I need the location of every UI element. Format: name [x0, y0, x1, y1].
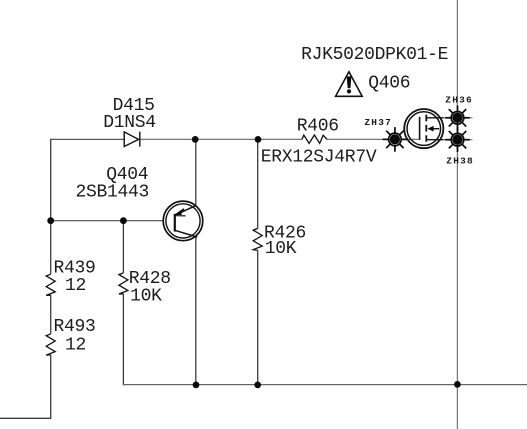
svg-text:ERX12SJ4R7V: ERX12SJ4R7V: [261, 147, 377, 167]
wire bottom-left exit: [0, 417, 51, 419]
svg-text:R406: R406: [297, 117, 339, 137]
svg-text:D1NS4: D1NS4: [103, 113, 156, 133]
node junction G (bottom/page line): [454, 381, 461, 388]
diode D415: [124, 132, 140, 147]
svg-text:Q406: Q406: [368, 74, 410, 94]
node junction C (top/emitter): [192, 136, 199, 143]
svg-text:ZH36: ZH36: [445, 95, 473, 106]
svg-text:2SB1443: 2SB1443: [76, 182, 150, 202]
wire left vertical between R439 and R493: [50, 295, 52, 334]
node junction D (top/R426): [255, 136, 262, 143]
wire source stub: [443, 139, 473, 141]
svg-text:R493: R493: [54, 317, 96, 337]
body arrowhead: [427, 126, 433, 132]
emitter arrowhead Q404: [175, 209, 186, 216]
wire left vertical: [50, 139, 52, 274]
gate bar: [419, 117, 421, 140]
node junction A (left/base): [47, 217, 54, 224]
test point ZH36: [445, 106, 470, 131]
svg-text:12: 12: [65, 276, 86, 296]
test point ZH38: [445, 127, 470, 152]
resistor R439: [46, 274, 55, 295]
drain internal lead: [426, 117, 443, 119]
wire drain stub: [443, 117, 473, 119]
wire top horizontal right segment (gate wire): [327, 138, 420, 140]
wire emitter vertical: [195, 139, 197, 205]
svg-text:ZH37: ZH37: [364, 117, 392, 128]
wire top horizontal middle segment: [140, 138, 302, 140]
resistor R493: [46, 334, 55, 355]
source internal lead: [426, 139, 443, 141]
svg-text:10K: 10K: [265, 239, 297, 259]
node junction E (bottom/collector): [193, 382, 200, 389]
mosfet Q406 RJK5020DPK01-E: [404, 109, 443, 148]
wire R426 vertical lower: [257, 250, 259, 384]
svg-text:12: 12: [65, 335, 86, 355]
resistor R426: [253, 228, 262, 250]
wire R428 vertical lower: [122, 294, 124, 385]
wire collector vertical: [195, 237, 197, 385]
wire left vertical below R493: [50, 355, 52, 418]
node junction B (base/R428): [120, 217, 127, 224]
wire R428 vertical upper: [122, 221, 124, 273]
test point ZH37: [383, 127, 408, 152]
svg-text:ZH38: ZH38: [446, 156, 474, 167]
wire top horizontal left segment: [51, 138, 125, 140]
node junction F (bottom/R426): [254, 382, 261, 389]
body line: [430, 128, 440, 130]
wire base horizontal: [51, 220, 164, 222]
channel dashed bar: [425, 115, 427, 142]
resistor R428: [119, 273, 128, 294]
svg-text:10K: 10K: [130, 286, 162, 306]
warning triangle: [336, 72, 363, 97]
transistor 2SB1443 Q404: [163, 201, 203, 241]
wire bottom horizontal: [123, 384, 527, 386]
svg-text:RJK5020DPK01-E: RJK5020DPK01-E: [301, 45, 448, 65]
resistor R406: [302, 135, 327, 143]
wire R426 vertical upper: [257, 139, 259, 228]
wire page vertical right: [456, 0, 458, 429]
